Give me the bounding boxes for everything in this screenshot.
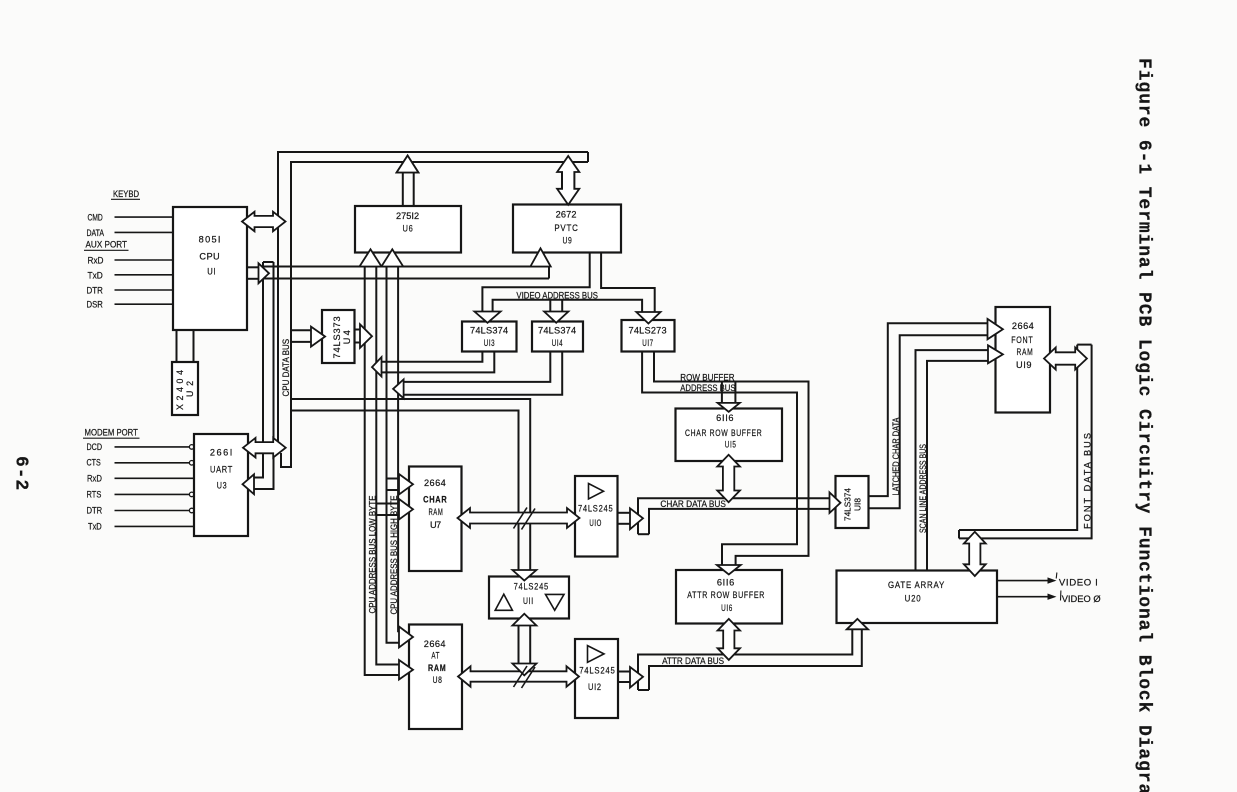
- svg-text:2664: 2664: [424, 639, 447, 649]
- svg-text:RTS: RTS: [87, 489, 102, 499]
- IC U3 2661 UART: [194, 434, 248, 536]
- buffer symbol in U12: [588, 646, 605, 663]
- arrow U10 output to char data bus: [618, 512, 631, 514]
- svg-text:UI7: UI7: [642, 338, 654, 348]
- svg-text:VIDEO Ø: VIDEO Ø: [1062, 594, 1101, 605]
- svg-text:RAM: RAM: [428, 663, 446, 673]
- IC U1 8051 CPU: [173, 207, 247, 330]
- IC U14 74LS374: [532, 322, 583, 352]
- svg-text:DCD: DCD: [87, 442, 103, 452]
- buffer symbol down in U11: [546, 594, 565, 610]
- svg-text:805I: 805I: [199, 235, 222, 245]
- wire DTR (modem port): [115, 510, 190, 512]
- svg-text:UI: UI: [207, 266, 216, 276]
- IC U10 74LS245 transceiver: [575, 476, 618, 557]
- arrow U19 to font data bus (bidirectional): [1044, 348, 1087, 370]
- svg-text:AT: AT: [431, 650, 440, 660]
- arrow high byte bus into U7: [399, 474, 413, 495]
- wire DATA (keyboard/aux port): [115, 231, 174, 233]
- svg-text:RAM: RAM: [1017, 347, 1034, 357]
- svg-text:74LS273: 74LS273: [629, 325, 668, 335]
- svg-text:UI4: UI4: [552, 338, 564, 348]
- svg-text:74LS245: 74LS245: [514, 582, 549, 592]
- svg-text:ADDRESS BUS: ADDRESS BUS: [680, 383, 735, 393]
- svg-text:UI2: UI2: [588, 682, 602, 692]
- bus CPU ADDRESS BUS LOW BYTE (left line, feeds U8 lower arrow): [365, 267, 399, 676]
- wire font data bus left end cap: [958, 530, 960, 538]
- svg-text:6II6: 6II6: [717, 577, 735, 587]
- svg-text:CHAR DATA BUS: CHAR DATA BUS: [660, 499, 726, 509]
- svg-text:U3: U3: [217, 480, 228, 490]
- svg-text:74LS374: 74LS374: [470, 325, 509, 335]
- bus SCAN LINE ADDRESS BUS right line: [927, 361, 988, 571]
- svg-text:UI6: UI6: [721, 603, 733, 613]
- wire U14 stem from video address bus: [549, 300, 551, 312]
- IC U13 74LS374: [462, 322, 517, 352]
- arrow row buffer address bus into U16: [717, 565, 741, 575]
- svg-text:Figure 6-1 Terminal PCB Logic: Figure 6-1 Terminal PCB Logic Circuitry …: [1134, 58, 1154, 792]
- bus CPU ADDRESS BUS HIGH BYTE (left line, feeds U8 upper arrow): [387, 267, 400, 643]
- svg-text:CMD: CMD: [88, 213, 104, 223]
- wire attr data bus stub cap: [638, 689, 649, 691]
- arrow CPU data bus into U4: [311, 327, 325, 347]
- node junction bus A vertical to UART (left line): [254, 262, 263, 478]
- bus from U1 to U6/U9 (upper line): [263, 266, 549, 268]
- svg-text:FONT: FONT: [1011, 335, 1033, 345]
- arrow into U13 from video address bus: [474, 312, 500, 323]
- svg-text:PVTC: PVTC: [554, 223, 578, 233]
- wire bus A top cap: [263, 261, 274, 263]
- bus CPU ADDRESS BUS HIGH BYTE (right line): [397, 267, 400, 632]
- arrow U1 to CPU data bus (bidirectional): [242, 212, 286, 232]
- bus FONT DATA BUS right line: [959, 345, 1092, 539]
- IC U11 74LS245 transceiver: [489, 577, 569, 619]
- svg-text:74LS374: 74LS374: [843, 488, 853, 521]
- svg-text:6II6: 6II6: [716, 413, 734, 423]
- wire U1 arrow2 stem stubs: [247, 266, 259, 268]
- bus VIDEO ADDRESS BUS lower line U13 to U17: [493, 300, 642, 312]
- buffer symbol up in U11: [495, 594, 512, 610]
- arrow high byte bus into U8: [399, 627, 413, 648]
- wire char data bus stub cap: [638, 533, 649, 535]
- bus FONT DATA BUS left line: [959, 345, 1077, 530]
- wire top CPU data bus run (outer line): [278, 152, 588, 442]
- svg-text:AUX PORT: AUX PORT: [86, 240, 128, 250]
- wire CTS (modem port): [115, 462, 190, 464]
- svg-text:CPU ADDRESS BUS HIGH BYTE: CPU ADDRESS BUS HIGH BYTE: [389, 495, 399, 614]
- bus U13 output to low byte address bus (upper): [382, 352, 483, 362]
- bus CPU ADDRESS BUS LOW BYTE (right line): [376, 267, 399, 665]
- bus from U1 to U6/U9 (lower line): [263, 278, 549, 280]
- bus CHAR DATA BUS lower line: [649, 509, 830, 534]
- wire U6 top bus stem: [402, 173, 404, 207]
- svg-text:SCAN LINE ADDRESS BUS: SCAN LINE ADDRESS BUS: [918, 444, 928, 533]
- IC U2 X2404 EEPROM: [172, 362, 198, 415]
- bus LATCHED CHAR DATA upper line from U18 to U19: [869, 323, 988, 496]
- wire RxD (keyboard/aux port): [115, 259, 174, 261]
- svg-text:FONT DATA BUS: FONT DATA BUS: [1082, 433, 1092, 529]
- arrow U3 UART to CPU data bus (bidirectional): [243, 438, 286, 458]
- svg-text:ATTR ROW BUFFER: ATTR ROW BUFFER: [687, 590, 765, 600]
- svg-text:DATA: DATA: [87, 228, 105, 238]
- svg-text:KEYBD: KEYBD: [113, 189, 139, 199]
- svg-text:U6: U6: [403, 224, 414, 234]
- svg-text:UI3: UI3: [484, 338, 496, 348]
- svg-text:CPU DATA BUS: CPU DATA BUS: [281, 339, 291, 397]
- svg-text:UII: UII: [523, 596, 534, 606]
- wire DSR (keyboard/aux port): [115, 303, 174, 305]
- svg-text:6-2: 6-2: [11, 456, 31, 491]
- arrow scan line address bus into U19: [988, 345, 1003, 363]
- arrow char data bus into U18: [830, 492, 841, 513]
- svg-text:74LS373: 74LS373: [332, 316, 342, 358]
- arrow attr data bus up into U20: [847, 619, 868, 629]
- IC U12 74LS245 transceiver: [575, 639, 618, 718]
- arrow row buffer address bus into U15: [718, 403, 740, 412]
- arrow into U14 from video address bus: [544, 312, 568, 323]
- svg-text:DTR: DTR: [87, 505, 103, 515]
- bus U13 output to low byte address bus (lower): [382, 352, 495, 373]
- wire RxD (modem port): [115, 477, 195, 479]
- svg-text:2664: 2664: [424, 478, 447, 488]
- svg-text:RxD: RxD: [88, 256, 104, 266]
- IC U18 74LS374 latch: [836, 476, 869, 528]
- svg-text:275I2: 275I2: [396, 211, 420, 221]
- bus CPU DATA BUS branch (lower): [291, 411, 519, 571]
- svg-text:RAM: RAM: [428, 507, 443, 517]
- arrow U7 to U10 char data (bidirectional): [458, 508, 580, 528]
- svg-text:74LS245: 74LS245: [579, 665, 615, 675]
- svg-text:UIO: UIO: [589, 518, 602, 528]
- bus ATTR DATA BUS lower line: [649, 629, 862, 690]
- svg-text:CPU: CPU: [199, 251, 220, 261]
- IC U16 6116 attr row buffer: [676, 570, 782, 624]
- wire top CPU data bus run (inner line, wraps below U3 arrow): [281, 162, 588, 467]
- arrow U11 bottom bus down into attr bus: [512, 664, 536, 676]
- IC U15 6116 char row buffer: [676, 409, 783, 462]
- IC U20 gate array: [837, 571, 998, 624]
- bus CPU DATA BUS branch to char/attr RAM buffers (upper): [291, 399, 530, 570]
- arrow U16 to attr data bus (bidirectional): [718, 619, 740, 660]
- svg-text:UI9: UI9: [1016, 360, 1032, 370]
- svg-text:2664: 2664: [1012, 321, 1035, 331]
- bus VIDEO ADDRESS BUS upper-left segment from U9 to U13: [482, 253, 589, 312]
- arrow CPU data branch down into U11: [512, 570, 536, 581]
- svg-text:U20: U20: [905, 593, 922, 603]
- bus ATTR DATA BUS upper line from U12 to U20: [638, 629, 852, 690]
- arrow U15 to char data bus (bidirectional): [717, 455, 740, 502]
- svg-text:VIDEO ADDRESS BUS: VIDEO ADDRESS BUS: [516, 291, 598, 301]
- arrow U6 stem up into top bus: [397, 156, 419, 173]
- wire U11 lower bus to U8/U12 bus: [518, 626, 520, 664]
- bus right end cap under U9: [548, 267, 550, 279]
- wire font data bus top cap: [1077, 344, 1091, 346]
- svg-text:MODEM PORT: MODEM PORT: [85, 428, 139, 438]
- wire VIDEO 1 output: [997, 580, 1048, 582]
- wire LOW byte branch to U7 (upper): [376, 503, 399, 505]
- wire U9 top bus stem: [561, 173, 563, 191]
- bus U14 output to high byte address bus (lower): [404, 352, 563, 395]
- arrow U14 output into high byte bus: [393, 379, 404, 398]
- wire VIDEO 0 output: [997, 596, 1048, 598]
- svg-text:U7: U7: [430, 520, 442, 530]
- arrow into U17 from video address bus: [636, 312, 660, 324]
- svg-text:CTS: CTS: [87, 458, 101, 468]
- wire CMD (keyboard/aux port): [115, 216, 174, 218]
- bus ROW BUFFER ADDRESS BUS inner line: [642, 352, 797, 566]
- wire top bus right end cap: [587, 152, 589, 162]
- buffer symbol in U10: [589, 484, 604, 499]
- bus U14 output to high byte address bus (upper): [404, 352, 551, 382]
- IC U4 74LS373 latch: [322, 310, 355, 363]
- IC U9 2672 PVTC: [513, 205, 621, 253]
- arrow U4 output into low byte bus: [360, 324, 372, 348]
- wire U15 stem from row buffer address bus: [721, 382, 723, 403]
- arrow U1 address out: [259, 263, 270, 283]
- IC U6 27512 EPROM: [355, 206, 461, 253]
- svg-text:ATTR DATA BUS: ATTR DATA BUS: [662, 656, 724, 666]
- wire RTS (modem port): [115, 493, 190, 495]
- arrow U13 output into low byte bus: [372, 357, 382, 376]
- arrow into U6 from address bus (right): [381, 249, 403, 266]
- svg-text:VIDEO I: VIDEO I: [1059, 578, 1098, 589]
- IC U7 2664 char RAM: [409, 467, 462, 572]
- bus CHAR DATA BUS upper line from U10 to U18: [638, 498, 830, 534]
- svg-text:CPU ADDRESS BUS LOW BYTE: CPU ADDRESS BUS LOW BYTE: [367, 495, 377, 613]
- svg-text:TxD: TxD: [88, 271, 104, 281]
- wire DTR (keyboard/aux port): [115, 289, 174, 291]
- svg-text:UI8: UI8: [853, 498, 863, 511]
- svg-text:2672: 2672: [556, 210, 578, 220]
- wire LOW byte branch to U7 (lower): [376, 514, 399, 516]
- wire crossover tick at attr bus junction: [514, 666, 528, 687]
- arrow font data bus to U20 (bidirectional): [964, 532, 986, 576]
- bus SCAN LINE ADDRESS BUS left line from U20 to U19: [916, 350, 989, 570]
- wire TxD (modem port): [115, 525, 195, 527]
- svg-text:DSR: DSR: [87, 300, 104, 310]
- svg-text:DTR: DTR: [87, 286, 104, 296]
- arrow U11 bottom up into U11: [512, 614, 536, 626]
- node junction bus A vertical to UART (right line): [254, 262, 274, 489]
- wire U4 output stubs: [355, 329, 361, 331]
- bus ROW BUFFER ADDRESS BUS outer line U17 to U16: [654, 352, 809, 566]
- wire CPU data bus tap to U4 (stubs): [291, 329, 311, 331]
- bus VIDEO ADDRESS BUS upper-right segment from U9 to U17: [601, 253, 655, 312]
- svg-text:RxD: RxD: [87, 473, 102, 483]
- svg-text:74LS245: 74LS245: [578, 504, 613, 514]
- IC U17 74LS273: [622, 320, 675, 352]
- wire U1 to U2 connection (left): [176, 330, 178, 362]
- arrow into U9 from address bus: [530, 248, 550, 266]
- svg-text:UI5: UI5: [725, 440, 737, 450]
- svg-text:U9: U9: [563, 236, 573, 246]
- wire HIGH byte branch to U7 (upper): [387, 478, 400, 480]
- svg-text:266I: 266I: [210, 447, 233, 457]
- svg-text:TxD: TxD: [88, 521, 102, 531]
- wire U1 to U2 connection (right): [193, 330, 195, 362]
- arrow U8 to U12 attr data (bidirectional): [458, 666, 579, 686]
- svg-text:UART: UART: [210, 464, 233, 474]
- svg-text:GATE ARRAY: GATE ARRAY: [888, 580, 945, 590]
- arrow low byte bus into U7: [399, 499, 413, 520]
- IC U8 2664 attribute RAM: [409, 625, 462, 730]
- wire TxD (keyboard/aux port): [115, 274, 174, 276]
- arrow latched char data into U19: [988, 319, 1003, 339]
- svg-text:LATCHED CHAR DATA: LATCHED CHAR DATA: [891, 417, 901, 495]
- svg-text:U8: U8: [433, 675, 443, 685]
- wire tick before VIDEO 0 label: [1060, 591, 1062, 601]
- svg-text:CHAR: CHAR: [423, 494, 447, 504]
- svg-text:74LS374: 74LS374: [538, 325, 577, 335]
- arrow bus A into U3 UART: [243, 474, 255, 494]
- arrow U12 output to attr data bus: [618, 671, 630, 673]
- bus LATCHED CHAR DATA lower line: [869, 335, 989, 508]
- arrow U9 to top bus (bidirectional): [557, 156, 579, 205]
- arrow low byte bus into U8: [399, 660, 413, 680]
- svg-text:CHAR ROW BUFFER: CHAR ROW BUFFER: [685, 428, 762, 438]
- wire crossover tick at char bus junction: [514, 508, 528, 529]
- wire tick before VIDEO 1 label: [1055, 573, 1058, 579]
- wire DCD (modem port): [115, 446, 190, 448]
- arrow into U6 from address bus (left): [360, 249, 382, 266]
- wire HIGH byte branch to U7 (lower): [387, 489, 400, 491]
- svg-text:ROW BUFFER: ROW BUFFER: [680, 373, 735, 383]
- IC U19 2664 font RAM: [996, 307, 1051, 413]
